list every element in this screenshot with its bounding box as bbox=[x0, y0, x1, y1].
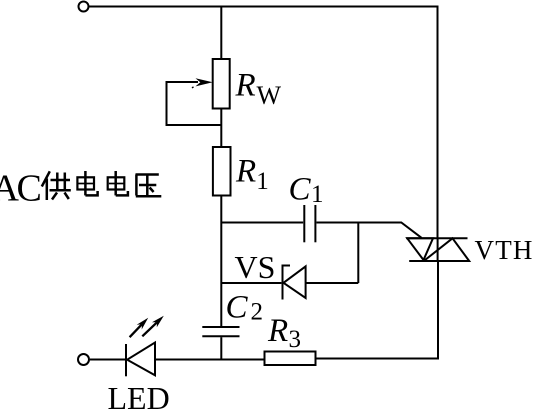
svg-text:W: W bbox=[257, 81, 282, 110]
svg-text:3: 3 bbox=[289, 326, 302, 353]
svg-text:R: R bbox=[267, 313, 288, 349]
svg-text:C: C bbox=[226, 289, 249, 325]
svg-text:2: 2 bbox=[251, 298, 264, 325]
svg-text:LED: LED bbox=[108, 380, 170, 410]
svg-text:1: 1 bbox=[256, 168, 269, 195]
svg-text:AC: AC bbox=[0, 168, 40, 210]
svg-text:VS: VS bbox=[235, 249, 276, 285]
svg-text:R: R bbox=[235, 68, 256, 104]
svg-text:VTH: VTH bbox=[475, 235, 534, 265]
svg-text:C: C bbox=[289, 171, 312, 207]
svg-text:R: R bbox=[235, 154, 256, 190]
svg-text:1: 1 bbox=[311, 181, 324, 208]
